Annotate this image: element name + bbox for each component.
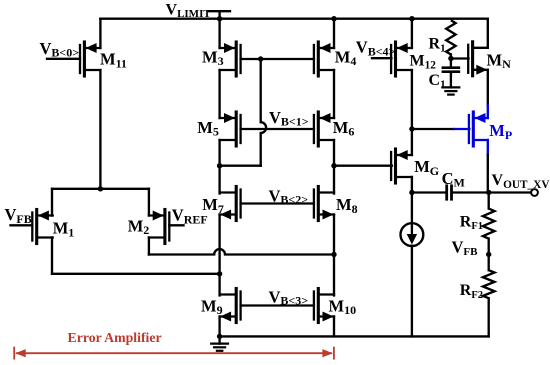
- svg-text:Error Amplifier: Error Amplifier: [68, 330, 162, 345]
